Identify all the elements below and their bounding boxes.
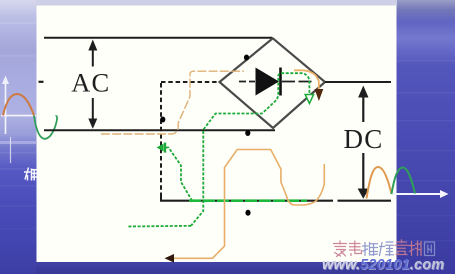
output axis white arrow [391, 193, 443, 195]
svg-text:DC: DC [344, 124, 384, 154]
green current path to diode [204, 73, 310, 129]
green lower horizontal tail [128, 225, 191, 228]
junction dot return wire [245, 210, 250, 216]
bottom return wire corner [160, 193, 162, 201]
input axis horizontal (white) [1, 115, 36, 117]
white diagram panel [37, 6, 397, 263]
DC wire from bridge [325, 81, 391, 83]
bottom return wire [160, 200, 391, 202]
junction dot upper bridge arm [244, 55, 249, 61]
DC arrow upper head [358, 86, 368, 98]
slide background bottom strip [36, 262, 397, 274]
orange output trapezoid waveform [168, 150, 324, 259]
output axis arrowhead [440, 190, 449, 198]
DC arrow upper shaft [362, 96, 364, 122]
DC arrow lower shaft [362, 153, 364, 190]
junction dot dashed wire [160, 117, 165, 123]
slide background right water column [397, 0, 455, 274]
orange current arrowhead [315, 89, 324, 101]
input axis arrowhead up [2, 76, 9, 85]
input axis vertical (white) [5, 83, 7, 134]
label 输 (input, clipped white glyph strokes) [24, 168, 37, 181]
water texture streaks right [397, 60, 455, 241]
green path load descent [166, 148, 192, 201]
diode D1 triangle [256, 68, 280, 96]
bridge rectifier diamond [220, 38, 326, 128]
return wire gap artifact [333, 199, 338, 202]
green overlay on return wire [189, 199, 307, 202]
input sine negative half (green) [34, 116, 57, 139]
top AC wire [44, 37, 272, 39]
orange current path under bottom wire [101, 71, 244, 134]
water texture streaks left [0, 22, 36, 230]
slide background top strip [36, 0, 397, 6]
diode D1 cathode bar [279, 68, 282, 96]
svg-text:www.520101.com: www.520101.com [322, 257, 444, 273]
input sine positive half (orange) [3, 94, 34, 116]
green arrow into load [157, 144, 164, 152]
orange tail arrowhead [165, 254, 175, 263]
green current arrowhead hollow [305, 95, 313, 104]
AC left terminal tick [39, 81, 44, 83]
diode axis dashed line right [282, 81, 314, 83]
green arrow butt bar [164, 143, 166, 153]
DC arrow lower head [358, 189, 369, 199]
watermark 家电维修资料网 pseudo-glyphs [334, 240, 435, 257]
slide decoration thin line [10, 137, 12, 163]
AC arrow lower shaft [92, 98, 94, 120]
diode axis dashed line [239, 81, 255, 83]
orange current path right of diode [294, 70, 319, 91]
output hump orange [367, 167, 392, 199]
AC arrow upper shaft [92, 49, 94, 67]
output hump green [392, 168, 416, 195]
green vertical drop wire [191, 131, 203, 226]
load box dashed horizontal wire [161, 81, 219, 83]
load box dashed vertical wire [160, 83, 162, 194]
bottom AC wire [44, 129, 275, 131]
junction dot bottom wire [245, 130, 250, 136]
slide background left water column [0, 0, 37, 274]
AC arrow lower head [88, 119, 97, 129]
AC arrow upper head [88, 40, 97, 51]
svg-text:AC: AC [71, 67, 110, 97]
